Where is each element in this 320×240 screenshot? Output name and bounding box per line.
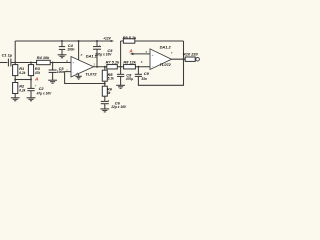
svg-text:+: + [152,53,154,57]
wire R6 to C6 [104,96,106,101]
op-amp DA1.1 [65,54,97,77]
resistor R10 [183,52,199,62]
node C3 top [52,62,54,64]
svg-text:100n: 100n [57,70,64,74]
resistor R4 [37,55,51,64]
node R5 top [104,66,106,68]
capacitor C6 [101,98,127,109]
wire pin 8 supply [78,41,80,60]
resistor R2 [13,83,26,94]
svg-text:DA1.1: DA1.1 [86,54,97,59]
node output/feedback [183,58,185,60]
capacitor C9 [135,67,150,81]
svg-text:6.2k: 6.2k [19,88,25,92]
svg-text:33n: 33n [141,77,147,81]
svg-text:-: - [73,70,74,74]
svg-text:+: + [99,43,101,47]
capacitor C8 [117,67,133,81]
svg-text:C9: C9 [144,71,150,76]
wire C4 to ground [61,49,63,54]
resistor R5 [102,67,114,81]
wire C2 to ground [30,91,32,98]
svg-text:100n: 100n [67,47,74,51]
node pin8 [78,40,80,42]
wire R2 to ground [14,94,16,98]
svg-text:5.1k: 5.1k [108,76,114,80]
wire input [0,62,7,64]
node R7/R8/C8 [120,66,122,68]
svg-text:TL072: TL072 [85,72,97,77]
capacitor C1 [2,53,13,67]
svg-text:+: + [107,98,109,102]
node R3 top [30,62,32,64]
ground below C6 [100,109,109,112]
capacitor C3 [49,63,65,75]
pin 4 wire [78,74,80,77]
wire output DA1.2 [172,58,196,60]
node A junction [30,79,32,81]
svg-text:470µ: 470µ [125,77,133,81]
wire C3 to ground [52,72,54,80]
svg-text:22µ x 16V: 22µ x 16V [110,105,126,109]
svg-text:C1 1µ: C1 1µ [2,53,13,58]
svg-text:3k: 3k [107,91,111,95]
ground below C3 [48,80,57,83]
svg-text:+: + [35,84,37,88]
node feedback R5/R6 [104,83,106,85]
svg-text:47µ x 16V: 47µ x 16V [36,91,52,95]
wire node A to pin5 [133,53,150,55]
node C5 bottom [96,66,98,68]
resistor R9 [121,35,184,43]
node R1/R2 [14,79,16,81]
wire R1 to R2 [14,76,16,83]
wire R4 to opamp [50,62,71,64]
+12V arrow [103,37,114,42]
wire bias row [15,79,31,81]
wire C9 feedback loop [138,41,183,85]
svg-text:TL072: TL072 [160,62,172,67]
svg-text:A: A [34,76,38,81]
svg-text:R4 10k: R4 10k [37,55,50,60]
svg-text:R8 12k: R8 12k [123,59,136,64]
svg-text:A: A [128,48,132,53]
wire R5 to R6 [104,81,106,86]
svg-text:+: + [72,61,74,65]
node A arrow [130,53,134,55]
wire to inverting input DA1.2 [138,66,150,68]
wire vertical from rail to R1 [14,41,16,65]
op-amp DA1.2 [141,44,173,69]
ground pin 4 [75,76,81,79]
wire output rail [94,66,139,68]
node C4 top [61,40,63,42]
resistor R8 [123,59,136,69]
wire inverting input feedback [65,72,105,84]
capacitor C2 [27,84,52,96]
capacitor C4 [59,41,75,51]
node junction C1/R1 [14,62,16,64]
ground below R2 [11,98,20,101]
wire feedback vertical R9 [120,41,122,67]
wire C6 to ground [104,104,106,109]
svg-text:DA1.2: DA1.2 [160,44,172,49]
svg-text:6.2k: 6.2k [19,71,25,75]
svg-text:+12V: +12V [103,37,111,41]
node C9/pin6 [137,66,139,68]
resistor R1 [13,65,26,76]
ground below C8 [116,85,125,88]
resistor R6 [102,86,112,96]
node C5 top [96,40,98,42]
ground below C4 [58,55,67,58]
svg-text:R9 5.1k: R9 5.1k [123,35,137,40]
wire +12V rail [15,40,110,42]
ground below C2 [27,98,36,101]
svg-text:R10 220: R10 220 [183,52,199,57]
capacitor C5 [93,41,113,57]
wire C8 to ground [120,76,122,85]
resistor R7 [106,59,120,69]
wire R3 to node A [30,76,32,89]
resistor R3 [28,63,40,76]
wire C5 to output rail [96,49,98,67]
svg-text:-: - [152,64,153,68]
output terminal [196,57,200,61]
svg-text:47k: 47k [34,71,41,75]
svg-text:R7 5.1k: R7 5.1k [106,59,120,64]
wire signal rail [11,62,37,64]
